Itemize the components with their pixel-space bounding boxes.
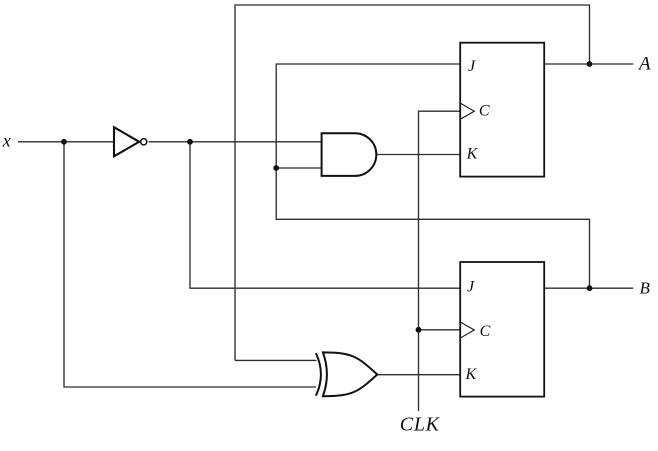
svg-text:K: K [465,366,478,383]
svg-text:B: B [640,279,651,298]
svg-text:K: K [466,146,479,163]
svg-text:J: J [468,58,476,75]
svg-text:A: A [637,54,651,75]
svg-text:C: C [479,103,490,120]
svg-text:x: x [2,131,11,151]
svg-text:J: J [467,278,475,295]
svg-text:CLK: CLK [400,414,441,436]
svg-text:C: C [480,323,491,340]
